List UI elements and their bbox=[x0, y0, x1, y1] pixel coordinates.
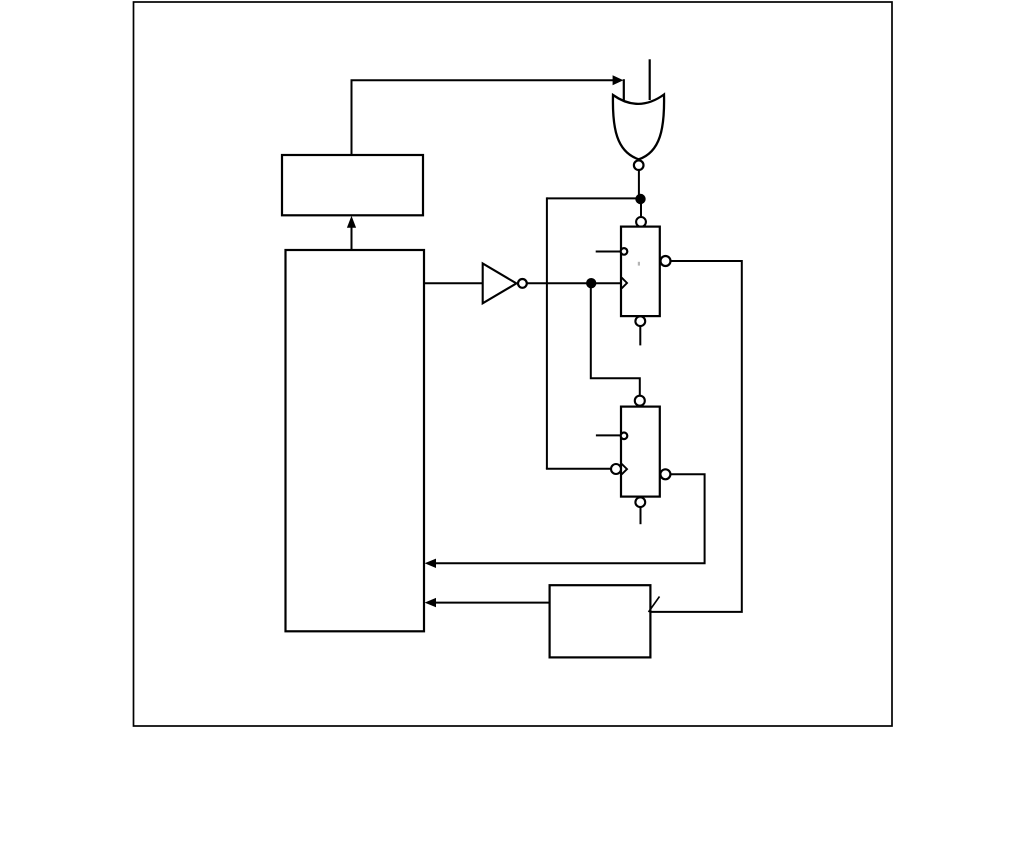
FF2 top bubble bbox=[635, 396, 645, 406]
wire feedback horizontal into junction A bbox=[547, 197, 641, 199]
arrowhead into R2 upper bbox=[425, 559, 436, 568]
flip-flop U3 (lower) body bbox=[621, 407, 660, 497]
FF2 clock bubble bbox=[611, 464, 621, 474]
wire FF2 output to R2 bbox=[436, 474, 705, 563]
junction B dot bbox=[586, 278, 596, 288]
FF1 top bubble bbox=[636, 217, 646, 227]
wire inverter input from R2 bbox=[424, 282, 483, 284]
FF2 D input bubble bbox=[621, 433, 628, 440]
wire inverter output to FF1 clock bbox=[527, 282, 621, 284]
wire FF1 bottom stub bbox=[639, 326, 641, 345]
junction A dot bbox=[635, 194, 645, 204]
wire NOR gate left input drop bbox=[623, 79, 625, 102]
FF1 clock marker bbox=[622, 278, 627, 289]
arrowhead into R1 bottom bbox=[347, 216, 356, 228]
FF1 label 1 bbox=[638, 262, 640, 266]
wire FF1 D input stub bbox=[596, 251, 621, 253]
inverter U4 bbox=[483, 264, 517, 304]
wire FF1 output feedback to R3 bbox=[650, 261, 741, 612]
wire NOR gate right input stub bbox=[649, 59, 651, 100]
wire NOR output to junction bbox=[638, 170, 640, 198]
wire feedback to FF2 clock bbox=[546, 468, 611, 470]
clock slash on R3 bbox=[649, 597, 660, 613]
wire feedback left vertical bbox=[546, 197, 548, 468]
inverter output bubble bbox=[518, 279, 527, 288]
border frame bbox=[134, 2, 893, 726]
wire FF2 D input stub bbox=[596, 434, 621, 436]
wire junction A to FF1 top bubble bbox=[640, 199, 642, 217]
wire R2 to R1 bbox=[351, 228, 353, 250]
wire FF2 bottom stub bbox=[640, 507, 642, 524]
FF1 output bubble bbox=[661, 256, 671, 266]
NOR gate U1 bbox=[613, 95, 664, 160]
FF1 D input bubble bbox=[621, 248, 628, 255]
wire junction B down to FF2 top bbox=[591, 283, 640, 395]
FF1 bottom bubble bbox=[635, 316, 645, 326]
FF2 clock marker bbox=[622, 464, 627, 475]
arrowhead into R2 lower bbox=[425, 598, 436, 607]
wire R1 top to NOR gate input bbox=[352, 80, 614, 155]
FF2 bottom bubble bbox=[635, 497, 645, 507]
block R1 (top-left rectangle) bbox=[282, 155, 423, 215]
FF2 output bubble bbox=[660, 469, 670, 479]
block R3 (bottom small rectangle) bbox=[550, 585, 651, 657]
wire R3 output to R2 bbox=[436, 602, 550, 604]
flip-flop U2 (upper) body bbox=[621, 227, 660, 317]
NOR gate output bubble bbox=[634, 160, 644, 170]
arrowhead into NOR gate input bbox=[613, 75, 624, 85]
block R2 (large left rectangle) bbox=[286, 250, 425, 631]
